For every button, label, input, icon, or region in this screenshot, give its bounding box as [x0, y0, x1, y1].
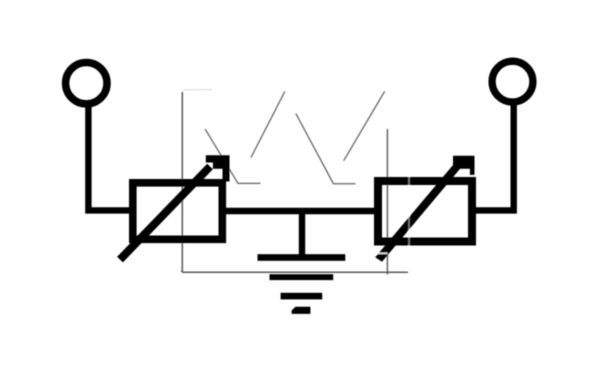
resistor box left	[133, 183, 223, 240]
ground bar 1	[258, 254, 346, 261]
watermark white slit over right wiper foot	[368, 252, 388, 254]
watermark M stroke: middle backslash	[296, 114, 334, 184]
watermark M stroke: left backslash	[205, 129, 238, 183]
ground bar 4	[292, 307, 311, 314]
watermark frame top stub	[183, 89, 212, 92]
watermark M stroke: middle tail	[333, 183, 356, 185]
wiper arrowhead right	[453, 156, 475, 175]
watermark frame left edge	[181, 92, 183, 272]
wire left drop and horizontal	[88, 103, 131, 210]
terminal circle right	[492, 61, 533, 102]
wiper arrow shaft left	[117, 164, 213, 263]
terminal circle left	[66, 62, 107, 103]
ground bar 3	[281, 293, 323, 300]
watermark M stroke: left tail	[238, 182, 261, 184]
watermark white overlay line	[408, 172, 410, 252]
wire between resistors	[223, 208, 377, 214]
wire right drop and horizontal	[473, 102, 514, 210]
watermark M stroke: second peak rising	[344, 91, 385, 160]
ground bar 2	[270, 274, 334, 280]
wire ground drop	[299, 212, 305, 255]
watermark frame bottom edge	[182, 271, 408, 273]
wiper arrow shaft right	[375, 163, 460, 262]
watermark frame right edge	[386, 129, 388, 275]
wiper arrowhead left	[206, 155, 230, 181]
resistor box right	[378, 181, 472, 242]
watermark M stroke: first peak rising	[251, 92, 285, 158]
